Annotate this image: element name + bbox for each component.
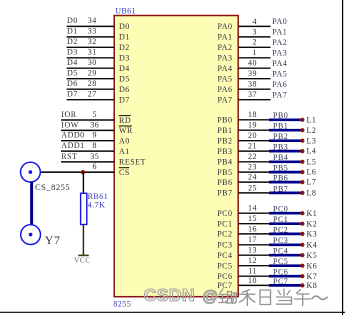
pin D4 wire xyxy=(67,67,115,69)
wire PC2 to K3 (highlighted) xyxy=(269,233,301,236)
wire A0 pin row xyxy=(61,140,114,142)
svg-text:12: 12 xyxy=(248,256,257,265)
connector circle Y7 xyxy=(21,225,41,245)
pin PC1 wire xyxy=(238,223,270,225)
svg-text:15: 15 xyxy=(248,214,257,223)
svg-text:D3: D3 xyxy=(67,48,78,57)
arrow terminal at K5 xyxy=(300,253,304,257)
svg-text:PA0: PA0 xyxy=(218,22,233,31)
svg-text:PA7: PA7 xyxy=(218,96,233,105)
wire PC5 to K6 (highlighted) xyxy=(269,264,301,267)
svg-text:K7: K7 xyxy=(307,272,318,281)
wire PB2 to L3 (highlighted) xyxy=(269,139,301,142)
svg-text:D0: D0 xyxy=(119,22,130,31)
pin PA0 wire xyxy=(238,25,270,27)
svg-text:31: 31 xyxy=(88,48,97,57)
svg-text:39: 39 xyxy=(248,69,257,78)
connector circle CS_8255 xyxy=(21,162,41,182)
svg-text:K1: K1 xyxy=(307,209,318,218)
svg-text:CS_8255: CS_8255 xyxy=(35,182,70,192)
svg-text:D1: D1 xyxy=(67,27,78,36)
svg-text:17: 17 xyxy=(248,235,257,244)
svg-text:8255: 8255 xyxy=(113,300,131,309)
pin D0 wire xyxy=(67,25,115,27)
svg-text:PA3: PA3 xyxy=(218,54,233,63)
svg-text:38: 38 xyxy=(248,80,257,89)
svg-text:14: 14 xyxy=(248,204,257,213)
svg-text:24: 24 xyxy=(248,173,257,182)
svg-text:1: 1 xyxy=(253,48,258,57)
svg-text:PA3: PA3 xyxy=(272,49,287,58)
svg-text:RST: RST xyxy=(61,152,77,161)
arrow terminal at L5 xyxy=(300,160,304,164)
svg-text:25: 25 xyxy=(248,183,257,192)
svg-text:CSDN: CSDN xyxy=(144,285,195,305)
svg-text:PC1: PC1 xyxy=(217,220,232,229)
svg-text:L6: L6 xyxy=(307,168,317,177)
svg-text:PB3: PB3 xyxy=(217,147,232,156)
svg-text:PA2: PA2 xyxy=(218,43,233,52)
pin PC4 wire xyxy=(238,254,270,256)
svg-text:D7: D7 xyxy=(67,90,78,99)
pin PB5 wire xyxy=(238,171,270,173)
svg-text:27: 27 xyxy=(88,90,97,99)
svg-text:30: 30 xyxy=(88,58,97,67)
svg-text:K8: K8 xyxy=(307,281,318,290)
svg-text:8: 8 xyxy=(93,141,98,150)
svg-text:ADD1: ADD1 xyxy=(61,141,84,150)
pin PB0 wire xyxy=(238,119,270,121)
svg-text:4.7K: 4.7K xyxy=(88,200,106,209)
svg-text:28: 28 xyxy=(88,79,97,88)
svg-text:33: 33 xyxy=(88,27,97,36)
wire WR pin row xyxy=(61,129,114,131)
svg-text:36: 36 xyxy=(90,120,99,129)
svg-text:K6: K6 xyxy=(307,261,318,270)
pin PA4 wire xyxy=(238,67,270,69)
sheet border right edge wire xyxy=(342,0,344,315)
svg-text:A1: A1 xyxy=(119,147,130,156)
wire PB7 to L8 (highlighted) xyxy=(269,192,301,195)
wire PB3 to L4 (highlighted) xyxy=(269,150,301,153)
svg-text:21: 21 xyxy=(248,142,257,151)
wire PB4 to L5 (highlighted) xyxy=(269,160,301,163)
svg-text:23: 23 xyxy=(248,163,257,172)
svg-text:PA5: PA5 xyxy=(218,75,233,84)
svg-text:PC3: PC3 xyxy=(217,241,232,250)
arrow terminal at K8 xyxy=(300,283,304,287)
pin PB2 wire xyxy=(238,140,270,142)
svg-text:IOR: IOR xyxy=(61,110,76,119)
svg-text:PA7: PA7 xyxy=(272,91,287,100)
arrow terminal at L8 xyxy=(300,191,304,195)
overline of RD xyxy=(119,115,131,117)
junction on CS net xyxy=(81,170,85,174)
wire connector CS_8255 to Y7 (highlighted) xyxy=(30,182,33,225)
svg-text:13: 13 xyxy=(248,246,257,255)
svg-text:D1: D1 xyxy=(119,33,130,42)
svg-text:PB7: PB7 xyxy=(217,189,232,198)
svg-text:35: 35 xyxy=(90,152,99,161)
svg-text:IOW: IOW xyxy=(61,120,79,129)
svg-text:L3: L3 xyxy=(307,136,317,145)
svg-text:CS: CS xyxy=(119,168,130,177)
wire CS net from connector to chip xyxy=(40,171,114,173)
svg-text:9: 9 xyxy=(93,131,98,140)
svg-text:20: 20 xyxy=(248,131,257,140)
svg-text:L2: L2 xyxy=(307,126,317,135)
arrow terminal at K7 xyxy=(300,274,304,278)
pin D2 wire xyxy=(67,46,115,48)
overline of WR xyxy=(119,125,132,127)
svg-text:PC7: PC7 xyxy=(217,281,232,290)
resistor RB61 xyxy=(81,193,87,224)
svg-text:PA5: PA5 xyxy=(272,70,287,79)
pin PC3 wire xyxy=(238,244,270,246)
svg-text:2: 2 xyxy=(253,38,258,47)
svg-text:K2: K2 xyxy=(307,219,318,228)
svg-text:PC4: PC4 xyxy=(217,251,232,260)
svg-text:L8: L8 xyxy=(307,189,317,198)
wire PC1 to K2 (highlighted) xyxy=(269,222,301,225)
wire PC3 to K4 (highlighted) xyxy=(269,243,301,246)
arrow terminal at L2 xyxy=(300,128,304,132)
svg-text:D2: D2 xyxy=(119,43,130,52)
pin PA2 wire xyxy=(238,46,270,48)
svg-text:Y7: Y7 xyxy=(45,233,61,247)
arrow terminal at L7 xyxy=(300,180,304,184)
svg-text:D5: D5 xyxy=(119,75,130,84)
svg-text:19: 19 xyxy=(248,121,257,130)
svg-text:PA4: PA4 xyxy=(218,64,233,73)
pin PB3 wire xyxy=(238,150,270,152)
arrow terminal at L3 xyxy=(300,139,304,143)
svg-text:10: 10 xyxy=(248,276,257,285)
wire PB1 to L2 (highlighted) xyxy=(269,129,301,132)
pin D3 wire xyxy=(67,57,115,59)
svg-text:PA6: PA6 xyxy=(272,80,287,89)
pin D1 wire xyxy=(67,36,115,38)
svg-text:PA2: PA2 xyxy=(272,38,287,47)
IC UB61 (8255) xyxy=(114,16,238,297)
svg-text:PB1: PB1 xyxy=(217,126,232,135)
svg-text:PC5: PC5 xyxy=(217,262,232,271)
arrow terminal at K2 xyxy=(300,222,304,226)
sheet border bottom edge wire xyxy=(0,311,345,313)
svg-text:11: 11 xyxy=(248,267,257,276)
svg-text:L7: L7 xyxy=(307,178,317,187)
wire PC7 to K8 (highlighted) xyxy=(269,284,301,287)
pin D7 wire xyxy=(67,99,115,101)
pin PA1 wire xyxy=(238,36,270,38)
svg-text:RD: RD xyxy=(119,116,131,125)
svg-text:WR: WR xyxy=(119,126,133,135)
pin PC6 wire xyxy=(238,275,270,277)
svg-text:PC0: PC0 xyxy=(217,209,232,218)
power symbol VCC (bar) xyxy=(78,254,89,256)
pin PC5 wire xyxy=(238,265,270,267)
pin PB6 wire xyxy=(238,181,270,183)
svg-text:D2: D2 xyxy=(67,37,78,46)
svg-text:PB6: PB6 xyxy=(217,178,232,187)
svg-text:4: 4 xyxy=(253,17,258,26)
svg-text:PA1: PA1 xyxy=(272,28,287,37)
pin PA6 wire xyxy=(238,88,270,90)
svg-text:D3: D3 xyxy=(119,54,130,63)
wire PC0 to K1 (highlighted) xyxy=(269,212,301,215)
svg-text:PB4: PB4 xyxy=(217,158,232,167)
wire PB0 to L1 (highlighted) xyxy=(269,118,301,121)
svg-text:D7: D7 xyxy=(119,96,130,105)
svg-text:VCC: VCC xyxy=(74,255,91,264)
pin PC2 wire xyxy=(238,233,270,235)
svg-text:PA1: PA1 xyxy=(218,33,233,42)
svg-text:D6: D6 xyxy=(67,79,78,88)
svg-text:40: 40 xyxy=(248,59,257,68)
svg-text:16: 16 xyxy=(248,224,257,233)
svg-text:PA0: PA0 xyxy=(272,17,287,26)
svg-text:5: 5 xyxy=(93,110,98,119)
arrow terminal at L1 xyxy=(300,118,304,122)
svg-text:D0: D0 xyxy=(67,16,78,25)
wire PB6 to L7 (highlighted) xyxy=(269,181,301,184)
svg-text:PC6: PC6 xyxy=(217,272,232,281)
wire A1 pin row xyxy=(61,150,114,152)
svg-text:K4: K4 xyxy=(307,240,318,249)
pin D5 wire xyxy=(67,78,115,80)
wire CS pin row xyxy=(40,171,114,173)
svg-text:L1: L1 xyxy=(307,115,317,124)
wire CS junction to resistor xyxy=(82,172,84,193)
arrow terminal at K4 xyxy=(300,243,304,247)
svg-text:UB61: UB61 xyxy=(115,6,136,15)
svg-text:PB5: PB5 xyxy=(217,168,232,177)
svg-text:22: 22 xyxy=(248,152,257,161)
svg-text:6: 6 xyxy=(93,162,98,171)
svg-text:PC2: PC2 xyxy=(217,230,232,239)
overline of CS xyxy=(119,167,130,169)
svg-text:D5: D5 xyxy=(67,69,78,78)
svg-text:ADD0: ADD0 xyxy=(61,131,84,140)
svg-text:32: 32 xyxy=(88,37,97,46)
svg-text:18: 18 xyxy=(248,110,257,119)
svg-text:@: @ xyxy=(202,289,218,306)
svg-text:D4: D4 xyxy=(67,58,78,67)
pin PB4 wire xyxy=(238,161,270,163)
svg-text:L4: L4 xyxy=(307,147,317,156)
wire resistor to VCC xyxy=(82,225,84,256)
arrow terminal at K1 xyxy=(300,211,304,215)
svg-text:PB0: PB0 xyxy=(217,116,232,125)
pin PB7 wire xyxy=(238,192,270,194)
svg-text:A0: A0 xyxy=(119,137,130,146)
svg-text:34: 34 xyxy=(88,16,97,25)
svg-text:3: 3 xyxy=(253,27,258,36)
pin PC7 wire xyxy=(238,284,270,286)
svg-text:PA4: PA4 xyxy=(272,59,287,68)
pin PA5 wire xyxy=(238,78,270,80)
svg-text:PA6: PA6 xyxy=(218,85,233,94)
wire PB5 to L6 (highlighted) xyxy=(269,171,301,174)
svg-text:K3: K3 xyxy=(307,230,318,239)
svg-text:D4: D4 xyxy=(119,64,130,73)
pin PA7 wire xyxy=(238,99,270,101)
svg-text:RESET: RESET xyxy=(119,158,146,167)
pin PC0 wire xyxy=(238,212,270,214)
pin D6 wire xyxy=(67,88,115,90)
arrow terminal at K6 xyxy=(300,264,304,268)
arrow terminal at K3 xyxy=(300,232,304,236)
svg-text:D6: D6 xyxy=(119,85,130,94)
svg-text:K5: K5 xyxy=(307,251,318,260)
pin PA3 wire xyxy=(238,57,270,59)
wire PC4 to K5 (highlighted) xyxy=(269,254,301,257)
wire RESET pin row xyxy=(61,161,114,163)
arrow terminal at L6 xyxy=(300,170,304,174)
svg-text:PB2: PB2 xyxy=(217,137,232,146)
svg-text:29: 29 xyxy=(88,69,97,78)
pin PB1 wire xyxy=(238,129,270,131)
wire PC6 to K7 (highlighted) xyxy=(269,275,301,278)
svg-text:37: 37 xyxy=(248,90,257,99)
svg-text:L5: L5 xyxy=(307,157,317,166)
wire RD pin row xyxy=(61,119,114,121)
arrow terminal at L4 xyxy=(300,149,304,153)
